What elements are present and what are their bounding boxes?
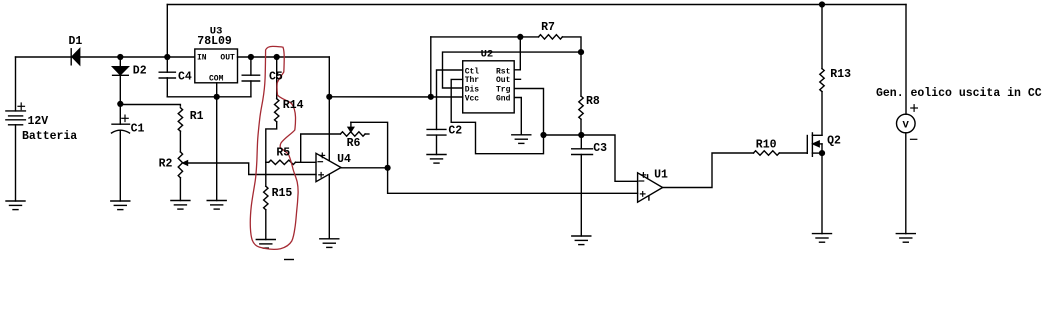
svg-text:C1: C1 [131,122,145,135]
resistor R10 [754,151,780,155]
generator plus sign [911,105,918,112]
transistor Q2 [807,133,822,156]
U1 power pin stub top [647,175,649,179]
wire Trg route [514,89,543,136]
U1 minus input mark [639,180,644,182]
wire Thr route [451,79,543,153]
node junction R7/R8/Dis [578,49,584,55]
ground R15 [256,240,275,249]
svg-text:Dis: Dis [465,85,480,94]
capacitor C4 [159,57,175,97]
generator source VG1 [897,114,916,133]
wire Ctl to C2 [437,70,463,129]
svg-text:D1: D1 [69,35,83,48]
regulator U3 box [195,49,238,83]
wire generator bottom lead [905,133,907,234]
resistor R13 [820,69,824,92]
wire R2 wiper to U4 plus input [187,163,316,175]
capacitor C2 [427,129,446,154]
resistor R7 [539,35,563,39]
wire 9V bus to 555 [329,96,462,98]
red annotation loop [250,46,298,249]
Q2 arrow [813,141,819,147]
svg-text:R1: R1 [190,110,204,123]
node junction R14 [274,54,280,60]
wire R13 top lead [821,5,823,69]
svg-text:C2: C2 [448,125,462,138]
svg-text:78L09: 78L09 [197,35,232,48]
resistor R8 [579,96,583,119]
C1 plus sign [122,115,128,121]
svg-text:V: V [903,119,910,131]
wire U2 Gnd pin [514,98,521,135]
wire D2 node to R1 [120,105,180,107]
U4 minus input mark [318,161,323,163]
wire Dis route [443,52,582,88]
wire R15 to ground [265,210,267,240]
wire R15 top lead [265,162,267,186]
wire U3 OUT to rail [238,56,330,58]
wire top rail right drop to generator [905,5,907,115]
wire Rst branch [514,37,520,70]
svg-text:R5: R5 [276,147,290,160]
node junction D2/C1/R1 [117,101,123,107]
wire COM bottom bus [167,96,251,98]
pin stub U2 Out [514,78,520,80]
U4 plus input mark [319,173,324,178]
wire Q2 source to ground [821,153,823,234]
svg-text:Out: Out [496,76,511,85]
svg-text:Q2: Q2 [827,135,841,148]
U4 power plus mark [320,153,325,158]
svg-text:OUT: OUT [220,54,235,63]
node junction COM/bus [214,94,220,100]
node junction Trg/Thr [540,132,546,138]
ground C1 [111,201,130,210]
svg-text:R2: R2 [159,158,173,171]
svg-text:Trg: Trg [496,85,511,94]
wire Trg node to U1 minus [544,135,638,181]
svg-text:R10: R10 [756,138,777,151]
annotation minus mark [284,259,294,261]
node junction C5 [248,54,254,60]
ground generator [896,234,915,243]
wire top supply to R7 [431,36,539,38]
generator minus sign [911,138,917,140]
wire R7 right to R8 top [562,37,581,52]
U1 power plus mark [641,173,646,178]
wire feedback U4 output to R6 wiper [351,122,388,168]
diode D1 [71,49,80,65]
svg-text:12V: 12V [28,115,49,128]
wire U4 output [341,167,388,169]
node junction R13 at top rail [819,1,825,7]
svg-text:D2: D2 [133,65,147,78]
svg-text:Thr: Thr [465,76,480,85]
wire top rail left drop [166,5,168,58]
wire Vcc riser [430,37,432,97]
battery B1 12V [6,111,26,125]
wire R14 top lead [276,57,278,99]
wire R1 to R2 [179,131,181,152]
svg-text:R13: R13 [830,68,851,81]
svg-text:U2: U2 [481,48,494,60]
wire R2 to ground [179,178,181,201]
svg-text:C3: C3 [593,142,607,155]
wire R8 top lead [580,52,582,96]
potentiometer R2 [178,152,182,178]
resistor R15 [264,186,268,210]
wire battery bottom lead [15,125,17,201]
svg-text:U4: U4 [337,153,351,166]
svg-text:R8: R8 [586,95,600,108]
timer U2 box [463,61,515,113]
ground C3 [572,236,591,245]
svg-text:U1: U1 [654,169,668,182]
wire rail drop to U4 power [328,57,330,161]
svg-text:Vcc: Vcc [465,94,480,103]
U1 plus input mark [640,192,645,197]
resistor R5 [266,160,316,164]
R6 wiper arrow [348,122,354,131]
U1 power pin stub bottom [648,196,650,200]
wire R13 to Q2 drain [821,92,823,136]
ground COM [207,201,226,210]
node junction Vcc riser [428,94,434,100]
wire U4 output to U1 plus input [388,168,638,194]
ground U2 [512,135,531,144]
battery plus sign [18,103,25,110]
node junction Rst branch [517,34,523,40]
wire top rail [167,4,906,6]
op-amp U4 [316,153,341,181]
svg-text:R7: R7 [541,21,555,34]
wire R8 bottom lead [580,119,582,135]
node junction Q2 source/body [819,150,825,156]
svg-text:R15: R15 [272,187,293,200]
svg-text:COM: COM [209,74,224,83]
wire R14 to node [266,122,277,163]
wire U4 bottom power to ground [328,175,330,239]
wire R6 left to U4 minus [301,134,341,162]
svg-text:Gen. eolico uscita in CC: Gen. eolico uscita in CC [876,87,1042,100]
svg-text:Ctl: Ctl [465,67,480,76]
svg-text:Gnd: Gnd [496,94,511,103]
capacitor C5 [242,57,259,97]
svg-text:IN: IN [197,54,207,63]
wire U1 output to R10 [663,153,754,188]
resistor R14 [275,99,279,122]
svg-text:C4: C4 [178,71,192,84]
node junction rail / top rail / C4 [164,54,170,60]
wire main rail left [16,56,195,58]
capacitor C3 [572,135,593,236]
node junction C3 [578,132,584,138]
resistor R1 [178,108,182,132]
ground U4 [320,239,339,248]
R2 wiper arrow [183,161,188,165]
op-amp U1 [638,173,663,202]
svg-text:Batteria: Batteria [22,130,77,143]
potentiometer R6 [340,132,369,136]
wire battery top lead [15,57,17,111]
ground C2 [427,155,446,164]
svg-text:C5: C5 [269,71,283,84]
ground R2 [171,201,190,210]
node junction U4 output [385,165,391,171]
svg-text:Rst: Rst [496,67,511,76]
diode D2 [113,57,129,104]
node junction D2 at rail [117,54,123,60]
wire U3 COM to ground [216,83,218,201]
ground battery [6,201,25,210]
svg-text:R14: R14 [283,99,304,112]
ground Q2 [813,234,832,243]
wire R10 to Q2 gate [779,152,807,154]
svg-text:R6: R6 [347,137,361,150]
node junction 9V bus [326,94,332,100]
capacitor C1 [112,104,130,201]
